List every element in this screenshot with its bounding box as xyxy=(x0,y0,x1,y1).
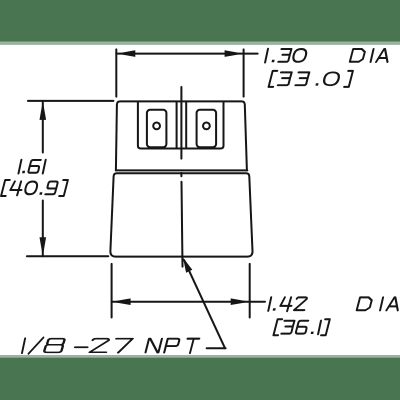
dimension text [40.9] xyxy=(1,180,68,196)
top dim left arrowhead xyxy=(116,50,135,57)
top green band xyxy=(0,0,400,42)
bottom dimension line xyxy=(112,301,265,303)
left dim bottom arrowhead xyxy=(40,237,47,256)
lower body (hex base) outline xyxy=(110,173,252,256)
centerline segment lower xyxy=(182,182,183,267)
bottom dim right arrowhead xyxy=(231,298,250,305)
dimension text [33.0] xyxy=(269,71,353,87)
top dim left extension line xyxy=(115,49,117,96)
NPT leader diagonal segment xyxy=(184,260,225,348)
left spade terminal xyxy=(147,110,167,147)
bottom green band xyxy=(0,358,400,400)
upper body (terminal cap) outline xyxy=(116,101,247,170)
dimension text 1.30 DIA xyxy=(265,49,390,63)
left dim top arrowhead xyxy=(40,101,47,120)
dimension text 1.61 xyxy=(18,160,45,174)
top dim right extension line xyxy=(243,49,245,96)
left dimension line lower segment xyxy=(42,201,44,257)
bottom dim left extension line xyxy=(111,264,113,318)
centerline segment upper xyxy=(180,87,182,159)
left dimension line upper segment xyxy=(42,101,44,153)
top dimension line xyxy=(116,53,257,55)
upper body bottom edge xyxy=(116,169,248,171)
NPT leader arrowhead xyxy=(183,258,192,273)
terminal recess outline xyxy=(138,102,224,149)
label text 1/8-27 NPT xyxy=(22,338,200,354)
bottom dim left arrowhead xyxy=(112,298,131,305)
right terminal hole xyxy=(203,123,210,130)
dimension text 1.42 DIA xyxy=(268,297,400,311)
left dim bottom extension line xyxy=(27,255,108,257)
centerline short dash at junction xyxy=(180,173,182,176)
left dim top extension line xyxy=(28,100,114,102)
right spade terminal xyxy=(197,110,217,147)
bottom dim right extension line xyxy=(249,264,251,318)
recess center web line right xyxy=(185,102,187,149)
NPT leader horizontal segment xyxy=(207,347,226,349)
top dim right arrowhead xyxy=(225,50,244,57)
left terminal hole xyxy=(153,123,160,130)
dimension text [36.1] xyxy=(273,319,329,335)
recess center web line left xyxy=(176,102,178,149)
